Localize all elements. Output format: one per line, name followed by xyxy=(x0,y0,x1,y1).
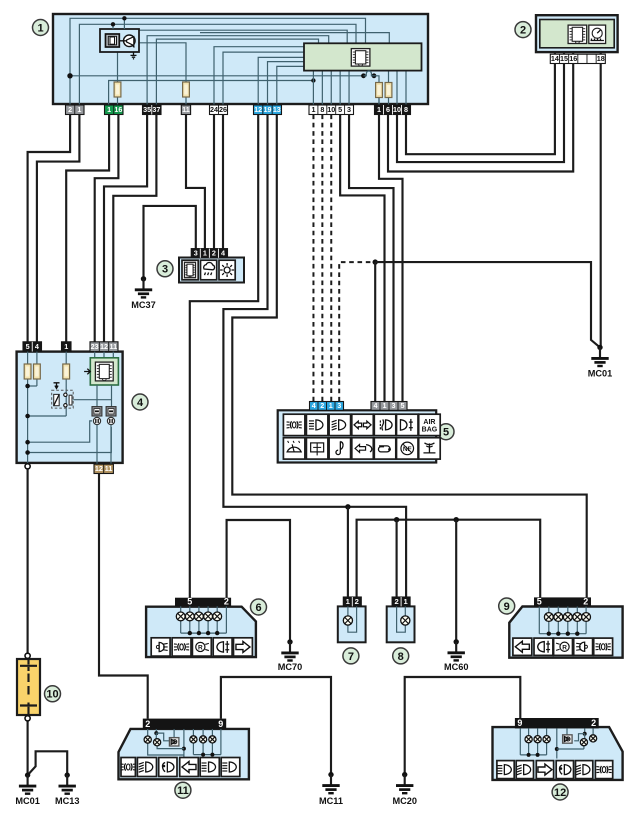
box1 transistor output to fuse of pin 11 xyxy=(139,43,186,82)
unit 9 label circle 9 xyxy=(499,598,515,614)
relay module sub-box in unit 1 xyxy=(100,29,139,52)
svg-text:11: 11 xyxy=(110,342,118,351)
wire box1 white pin3 to box5 gray pin3 xyxy=(349,115,393,402)
svg-text:MC70: MC70 xyxy=(278,662,303,672)
wire box1 green pin1 to box4 pin1 xyxy=(66,115,109,342)
unit 3 label circle 3 xyxy=(157,261,173,277)
svg-text:1: 1 xyxy=(377,105,381,114)
lamp turn left xyxy=(180,758,199,777)
wire box1 black pin1 to box5 gray pin5 xyxy=(379,115,403,402)
box1 connector pins 24 26 (white) xyxy=(210,105,228,115)
box1 connector pin 11 (gray) xyxy=(181,105,190,115)
unit 5 connector pins 4 1 3 5 (gray) xyxy=(371,402,407,411)
wire box1 green pin16 to box4 pin23 xyxy=(95,115,119,342)
svg-text:7: 7 xyxy=(348,651,354,663)
box1 internal bus wire L3 xyxy=(139,30,347,43)
wire box1 pin35 to box4 pin12 xyxy=(104,115,147,342)
lamp turn right xyxy=(536,761,553,779)
wire box1 pin1 to box4 pin4 xyxy=(37,115,80,342)
svg-text:14: 14 xyxy=(551,54,559,63)
svg-text:24: 24 xyxy=(210,105,218,114)
unit 4 lamp driver right xyxy=(106,407,116,416)
svg-text:MC60: MC60 xyxy=(444,662,469,672)
wire box1 black pin6 to box2 pin16 xyxy=(388,64,573,172)
svg-text:10: 10 xyxy=(46,689,58,701)
unit 11 connector bar xyxy=(143,719,226,729)
unit 4 connector pin 1 (black) xyxy=(62,342,72,352)
svg-text:8: 8 xyxy=(404,105,408,114)
box1 internal bus wire L6 from pin 37 xyxy=(156,39,318,105)
unit 9 internal bulb wires xyxy=(548,607,550,613)
lamp fog front left xyxy=(221,758,240,777)
unit 12 connector bar xyxy=(515,718,599,728)
box1 connector pins 1 8 10 5 3 (white) xyxy=(309,105,354,115)
unit 11 label circle 11 xyxy=(175,782,191,798)
svg-text:26: 26 xyxy=(219,105,227,114)
unit 4 relay output wire xyxy=(73,399,111,401)
unit 11 internal wires xyxy=(147,729,149,736)
wire box1 black pin8 to box2 pin14 xyxy=(406,64,555,155)
svg-text:BAG: BAG xyxy=(422,427,438,434)
battery unit 10 xyxy=(17,659,40,715)
unit 2 label circle 2 xyxy=(515,22,531,38)
svg-text:1: 1 xyxy=(311,105,315,114)
fuse F2 above black pin 6 xyxy=(385,83,392,98)
lamp turn left arrow xyxy=(513,638,532,655)
lamp fog front right xyxy=(497,761,514,779)
svg-text:11: 11 xyxy=(105,464,113,473)
wire box1 pin24 to box3 pin2 xyxy=(213,115,215,249)
svg-text:5: 5 xyxy=(338,105,342,114)
svg-text:9: 9 xyxy=(218,719,223,729)
unit 4 internal wires xyxy=(27,352,29,364)
svg-text:3: 3 xyxy=(194,249,198,258)
wire box1 blue pin13 to box9 pin2 xyxy=(232,115,586,598)
wire box11 pin9 to ground MC11 xyxy=(221,677,331,775)
box1 internal risers black connector pins 10/8 xyxy=(396,71,398,105)
box1 internal wire: battery line to ignition switch xyxy=(70,75,364,77)
IC chip icon of control module xyxy=(351,49,370,67)
box1 internal risers to connector 24/26/12/19/13 xyxy=(214,47,304,105)
unit 7 internal wires xyxy=(348,606,357,632)
svg-text:5: 5 xyxy=(187,597,192,607)
wire unit4 terminal to battery xyxy=(27,469,29,653)
box1 connector pins 1 16 (green) xyxy=(105,105,124,115)
svg-text:9: 9 xyxy=(504,601,510,613)
svg-text:2: 2 xyxy=(224,597,229,607)
ground MC01 right side xyxy=(597,345,602,350)
wire branch to ground MC13 xyxy=(28,751,68,775)
battery terminal circles xyxy=(25,653,30,658)
telltale high beam xyxy=(329,414,351,435)
svg-text:4: 4 xyxy=(35,342,39,351)
unit 7 bulb xyxy=(343,616,352,625)
dashed wire box5 blue pin3 to MC01 junction xyxy=(339,262,373,401)
svg-text:37: 37 xyxy=(152,105,160,114)
svg-text:2: 2 xyxy=(520,25,526,37)
svg-text:5: 5 xyxy=(26,342,30,351)
junction on pin19 wire to box7 pin1 xyxy=(345,504,350,509)
junction to box8 pin2 xyxy=(394,517,399,522)
box1 connector pins 2 1 (gray) xyxy=(66,105,85,115)
svg-text:16: 16 xyxy=(114,105,122,114)
telltale antenna xyxy=(419,438,441,459)
unit 4 IC outputs to lamp drivers xyxy=(96,385,98,407)
ground MC37 xyxy=(141,276,146,281)
svg-text:3: 3 xyxy=(337,401,341,410)
unit 3 connector pins 3 1 2 4 (black) xyxy=(191,249,227,258)
battery label circle 10 xyxy=(45,686,61,702)
box1 internal riser black pin6 to fuse F2 and green module xyxy=(388,71,390,105)
svg-text:35: 35 xyxy=(143,105,151,114)
lamp position front right xyxy=(595,761,612,779)
unit 4 fuse middle xyxy=(63,364,70,379)
svg-text:4: 4 xyxy=(221,249,225,258)
unit 3 icon cell sun sensor xyxy=(219,260,235,280)
unit 12 leveling actuator xyxy=(563,735,573,743)
box1 internal riser pin16 to relay module xyxy=(117,52,119,105)
wire box2 pin18 down to ground MC01 xyxy=(600,64,602,348)
unit 8 label circle 8 xyxy=(393,648,409,664)
unit 4 lamp outputs to bottom pins xyxy=(96,425,98,465)
lamp leveling left xyxy=(159,758,177,777)
lamp low beam left xyxy=(137,758,156,777)
unit 4 label circle 4 xyxy=(132,394,148,410)
unit 6 label circle 6 xyxy=(251,599,267,615)
unit 9 connector bar xyxy=(534,597,591,606)
relay module ground stub xyxy=(131,52,137,59)
motor icon in relay module xyxy=(124,35,136,47)
unit 1 label circle 1 xyxy=(33,20,49,36)
unit 4 fuse left 2 xyxy=(34,364,41,379)
svg-text:2: 2 xyxy=(212,249,216,258)
telltale rear wiper xyxy=(306,438,328,459)
telltale airbag xyxy=(419,414,441,435)
svg-text:5: 5 xyxy=(443,427,449,439)
svg-text:MC11: MC11 xyxy=(319,796,343,806)
svg-text:19: 19 xyxy=(263,105,271,114)
ground MC01 bottom left xyxy=(25,772,30,777)
svg-text:AIR: AIR xyxy=(423,419,435,426)
lamp high beam right xyxy=(516,761,533,779)
svg-text:16: 16 xyxy=(569,54,577,63)
telltale washer xyxy=(283,438,305,459)
svg-text:12: 12 xyxy=(254,105,262,114)
wire box1 pin26 to box3 pin4 xyxy=(222,115,224,249)
telltale low beam xyxy=(306,414,328,435)
telltale door loop xyxy=(374,438,396,459)
svg-text:2: 2 xyxy=(591,718,596,728)
svg-text:12: 12 xyxy=(554,787,566,799)
box1 internal bus wire L5 from pin 35 xyxy=(147,36,329,105)
telltale lamp arrow xyxy=(352,438,374,459)
svg-text:2: 2 xyxy=(583,597,588,607)
wire box1 black pin10 to box2 pin15 xyxy=(397,64,564,163)
svg-text:11: 11 xyxy=(177,785,189,797)
svg-text:1: 1 xyxy=(203,249,207,258)
unit 11 leveling actuator xyxy=(169,738,179,746)
svg-text:11: 11 xyxy=(182,105,190,114)
telltale NF xyxy=(397,438,419,459)
svg-text:3: 3 xyxy=(347,105,351,114)
unit 4 connector pins 5 4 (black) xyxy=(23,342,42,352)
unit 1 body: built-in systems interface box xyxy=(53,14,428,104)
wire unit4 pin12 to box11 pin2 xyxy=(99,474,148,719)
unit 4 fuse left 1 xyxy=(24,364,31,379)
unit 2 IC chip icon xyxy=(568,25,587,43)
junction node to MC01 / box5 gray pin4 xyxy=(373,259,378,264)
unit 12 internal wires xyxy=(528,728,530,735)
telltale rear fog xyxy=(397,414,419,435)
ignition switch contact inside box1 xyxy=(361,73,366,78)
unit 8 bulb xyxy=(401,616,410,625)
unit 4 bottom terminal circle xyxy=(25,464,30,469)
unit 4 connector pins 23 12 11 (gray) xyxy=(90,342,118,352)
svg-text:2: 2 xyxy=(355,597,359,606)
wire box6 pin2 to ground MC70 xyxy=(227,520,290,642)
ground MC20 xyxy=(402,772,407,777)
lamp rear fog xyxy=(213,638,232,656)
svg-text:2: 2 xyxy=(394,597,398,606)
lamp position front left xyxy=(121,758,135,777)
unit 4 main left rail with junctions xyxy=(27,379,29,464)
unit 6 internal bulb wires xyxy=(180,606,182,612)
wire box1 blue pin19 to box7 and box8 pin1 xyxy=(223,115,406,598)
dashed wire box1 white pin10 to box5 blue pin1 xyxy=(330,115,332,402)
fuse above gray pin 11 xyxy=(183,82,190,97)
unit 3 icon cell rain sensor xyxy=(201,260,217,280)
telltale audio xyxy=(329,438,351,459)
unit 5 connector pins 4 2 1 3 (blue) xyxy=(310,402,344,411)
green control module inside unit 1 xyxy=(304,43,422,70)
svg-text:MC37: MC37 xyxy=(131,300,156,310)
svg-text:18: 18 xyxy=(597,54,605,63)
svg-text:4: 4 xyxy=(137,397,144,409)
lamp position xyxy=(594,638,613,655)
svg-text:2: 2 xyxy=(68,105,72,114)
ground MC13 xyxy=(65,772,70,777)
svg-text:5: 5 xyxy=(537,597,542,607)
unit 2 connector pins 14 15 16 _ _ 18 xyxy=(550,54,605,63)
svg-text:6: 6 xyxy=(255,602,261,614)
lamp reversing xyxy=(192,638,211,656)
lamp leveling right xyxy=(556,761,573,779)
unit 12 bulbs xyxy=(525,736,532,743)
unit 3 body: light sensor module xyxy=(179,258,244,283)
lamp turn right arrow xyxy=(234,638,253,656)
wire box1 pin2 to box4 pin5 xyxy=(28,115,71,342)
relay module top wires with junctions xyxy=(112,24,114,29)
box1 connector pins 35 37 (black) xyxy=(143,105,162,115)
lamp brake xyxy=(151,638,170,656)
unit 4 lamp driver left xyxy=(92,407,102,416)
svg-text:5: 5 xyxy=(401,401,405,410)
svg-text:MC01: MC01 xyxy=(588,369,613,379)
unit 6 bulbs xyxy=(176,612,185,621)
svg-text:1: 1 xyxy=(107,105,111,114)
svg-text:1: 1 xyxy=(383,401,387,410)
box1 internal bus wire L2 from pin 1 xyxy=(79,24,356,105)
unit 5 body: instrument panel telltale cluster xyxy=(278,410,437,462)
unit 4 body: engine fuse/relay box xyxy=(17,352,123,463)
unit 8 body: side repeater lamp right xyxy=(387,606,415,642)
svg-text:2: 2 xyxy=(145,719,150,729)
svg-text:1: 1 xyxy=(329,401,333,410)
unit 7 body: side repeater lamp left xyxy=(338,606,366,642)
unit 4 relay dashed box xyxy=(52,390,73,408)
lamp brake xyxy=(574,638,593,655)
wire battery bottom to ground MC01 xyxy=(27,721,29,775)
svg-text:1: 1 xyxy=(64,342,68,351)
svg-text:MC01: MC01 xyxy=(15,796,40,806)
fuse F1 above black pin 1 xyxy=(378,83,380,106)
box1 internal riser pin 11 to fuse xyxy=(185,97,187,105)
unit 4 IC module green frame xyxy=(90,358,118,385)
svg-text:2: 2 xyxy=(320,401,324,410)
svg-text:MC13: MC13 xyxy=(55,796,80,806)
wire box1 pin11 to box3 pin1 xyxy=(186,115,205,249)
wire junction to ground MC01 right xyxy=(375,262,600,347)
unit 12 label circle 12 xyxy=(552,784,568,800)
dashed wire box1 white pin1 to box5 blue pin4 xyxy=(312,115,314,402)
ground MC11 xyxy=(328,772,333,777)
box1 connector pins 12 19 13 (blue) xyxy=(254,105,282,115)
unit 11 body: headlamp left xyxy=(119,729,249,779)
svg-text:8: 8 xyxy=(398,651,404,663)
fuse above green pin 16 xyxy=(114,82,121,97)
unit 5 label circle 5 xyxy=(438,424,454,440)
svg-text:13: 13 xyxy=(273,105,281,114)
svg-text:R: R xyxy=(562,644,567,651)
lamp position xyxy=(172,638,191,656)
box1 connector pins 1 6 10 8 (black) xyxy=(375,105,411,115)
svg-text:3: 3 xyxy=(392,401,396,410)
svg-text:R: R xyxy=(198,645,203,652)
ground MC60 xyxy=(454,639,459,644)
lamp reversing xyxy=(554,638,573,655)
unit 2 inner green panel xyxy=(540,20,614,48)
unit 7 connector pins 1 2 (black) xyxy=(343,597,361,606)
ignition lock icon in module xyxy=(106,34,120,47)
svg-text:23: 23 xyxy=(91,342,99,351)
svg-text:10: 10 xyxy=(327,105,335,114)
wire box1 white pin5 to box5 gray pin1 xyxy=(340,115,384,402)
unit 12 body: headlamp right xyxy=(493,727,623,780)
svg-text:4: 4 xyxy=(312,401,316,410)
unit 8 internal wires xyxy=(397,606,406,632)
junction to ground MC60 xyxy=(454,517,459,522)
unit 4 bottom connector pins 12 11 (tan) xyxy=(94,464,113,473)
svg-text:12: 12 xyxy=(100,342,108,351)
unit 6 connector bar xyxy=(175,598,231,607)
svg-text:6: 6 xyxy=(386,105,390,114)
wire box3 pin3 to ground MC37 xyxy=(144,206,196,279)
unit 7 label circle 7 xyxy=(343,648,359,664)
telltale front fog xyxy=(374,414,396,435)
ground MC70 xyxy=(287,639,292,644)
lamp rear fog xyxy=(534,638,553,655)
unit 9 body: rear right lamp cluster xyxy=(509,607,622,658)
ground bus wire box7 pin2 / box8 pin2 / MC60 / box9 pin5 xyxy=(357,520,541,598)
svg-text:MC20: MC20 xyxy=(392,796,417,806)
wire box1 pin37 to box4 pin11 xyxy=(113,115,156,342)
svg-text:10: 10 xyxy=(393,105,401,114)
svg-text:15: 15 xyxy=(560,54,568,63)
svg-text:4: 4 xyxy=(374,401,378,410)
wire box1 blue pin12 to box6 pin5 xyxy=(190,115,258,598)
box1 internal risers white connector pins to control green module xyxy=(312,71,314,105)
dashed wire box1 white pin8 to box5 blue pin2 xyxy=(321,115,323,402)
unit 6 body: rear left lamp cluster xyxy=(146,607,256,657)
svg-text:12: 12 xyxy=(95,464,103,473)
unit 2 gauge icon xyxy=(589,25,606,43)
svg-text:9: 9 xyxy=(517,718,522,728)
svg-text:3: 3 xyxy=(162,264,168,276)
unit 8 connector pins 2 1 (black) xyxy=(392,597,410,606)
svg-text:1: 1 xyxy=(77,105,81,114)
box1 internal wire: fuse feed line from green pin 1 xyxy=(109,81,314,106)
wire box12 pin9 to ground MC20 xyxy=(405,677,521,775)
svg-text:1: 1 xyxy=(37,22,43,34)
telltale position light xyxy=(283,414,305,435)
unit 9 bulbs xyxy=(544,613,553,622)
unit 2 body: instrument cluster xyxy=(536,15,618,52)
box1 internal bus wire L4 xyxy=(200,33,389,44)
box1 internal bus wire L1 from pin 2 xyxy=(70,18,366,105)
unit 3 icon cell chip xyxy=(182,260,198,280)
lamp high beam left xyxy=(200,758,219,777)
unit 11 bulbs xyxy=(144,736,151,743)
svg-text:8: 8 xyxy=(320,105,324,114)
lamp low beam right xyxy=(576,761,593,779)
unit 4 arrow into IC module xyxy=(84,369,90,375)
box1 internal riser black pin1 to fuse F1 xyxy=(378,98,380,106)
telltale turn signals xyxy=(352,414,374,435)
